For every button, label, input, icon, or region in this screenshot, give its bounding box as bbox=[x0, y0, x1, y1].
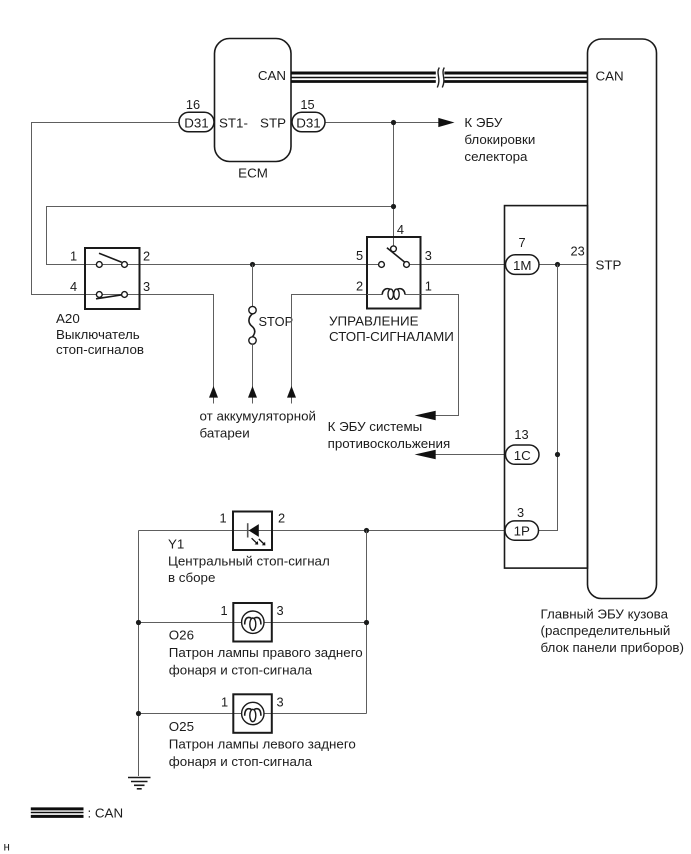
battery arrow middle bbox=[248, 386, 257, 398]
wire relay pin3 to 1M bbox=[409, 264, 505, 266]
wire switch pin1 to node above relay pin4 bbox=[47, 207, 394, 265]
wire switch pin3 to battery arrow left bbox=[140, 295, 214, 404]
node junction right rail O26 bbox=[364, 620, 369, 625]
wire right rail bbox=[366, 531, 368, 714]
wire vertical bus 1M-1C-1P bbox=[539, 265, 558, 531]
node junction right of 1C bbox=[555, 452, 560, 457]
svg-text:К ЭБУ системы: К ЭБУ системы bbox=[328, 419, 423, 434]
svg-text:2: 2 bbox=[356, 278, 363, 293]
svg-text:ECM: ECM bbox=[238, 166, 268, 181]
relay arm bbox=[387, 248, 406, 263]
node junction left rail O26 bbox=[136, 620, 141, 625]
rear lamp left O25 bbox=[221, 694, 284, 733]
svg-text:Главный ЭБУ кузова: Главный ЭБУ кузова bbox=[541, 607, 669, 622]
svg-text:блок панели приборов): блок панели приборов) bbox=[541, 640, 684, 655]
svg-text:Y1: Y1 bbox=[168, 536, 184, 551]
pin 16 connector D31 bbox=[179, 112, 214, 132]
arrow to shift-lock ECU bbox=[438, 118, 454, 127]
svg-text:STOP: STOP bbox=[259, 314, 294, 329]
contact pin1 bbox=[96, 262, 102, 268]
STOP fuse bbox=[249, 265, 293, 404]
pin 15 connector D31 bbox=[292, 112, 325, 132]
svg-text:3: 3 bbox=[517, 505, 524, 520]
pin 13 connector 1C bbox=[506, 445, 540, 464]
wire relay coil pin1 to skid-control arrow bbox=[421, 295, 459, 416]
svg-text:CAN: CAN bbox=[258, 68, 286, 83]
connector sub-block of main body ECU bbox=[505, 206, 588, 568]
wire ST1- pin16 to switch A20 pin 4 bbox=[32, 123, 180, 295]
svg-text:16: 16 bbox=[186, 97, 200, 112]
svg-text:в сборе: в сборе bbox=[168, 570, 215, 585]
svg-text:СТОП-СИГНАЛАМИ: СТОП-СИГНАЛАМИ bbox=[329, 329, 454, 344]
svg-text:фонаря и стоп-сигнала: фонаря и стоп-сигнала bbox=[169, 754, 313, 769]
LED cathode bar bbox=[247, 523, 249, 537]
svg-text:5: 5 bbox=[356, 248, 363, 263]
svg-text:O26: O26 bbox=[169, 628, 194, 643]
svg-text:стоп-сигналов: стоп-сигналов bbox=[56, 342, 144, 357]
wire O26 row bbox=[139, 622, 367, 624]
svg-text:батареи: батареи bbox=[200, 425, 250, 440]
battery arrow right bbox=[287, 386, 296, 398]
svg-text:O25: O25 bbox=[169, 719, 194, 734]
svg-text:3: 3 bbox=[276, 694, 283, 709]
svg-text:1: 1 bbox=[221, 694, 228, 709]
svg-text:7: 7 bbox=[518, 235, 525, 250]
wire switch pin2 to relay pin5 bbox=[140, 264, 379, 266]
svg-text:блокировки: блокировки bbox=[464, 132, 535, 147]
node junction STOP fuse tap bbox=[250, 262, 255, 267]
wire 1M to right block STP bbox=[539, 264, 588, 266]
svg-text:Патрон лампы правого заднего: Патрон лампы правого заднего bbox=[169, 645, 363, 660]
wire O25 row bbox=[139, 713, 367, 715]
stop light control relay bbox=[356, 222, 432, 309]
stop light switch A20 bbox=[70, 248, 150, 309]
svg-text:3: 3 bbox=[425, 248, 432, 263]
bulb O25 bbox=[242, 702, 264, 724]
svg-text:3: 3 bbox=[143, 279, 150, 294]
svg-text:4: 4 bbox=[70, 279, 77, 294]
CAN bus ECM to main body ECU bbox=[291, 73, 588, 82]
svg-text:A20: A20 bbox=[56, 311, 80, 326]
svg-text:К ЭБУ: К ЭБУ bbox=[464, 115, 503, 130]
wire vertical to relay pin 4 bbox=[393, 123, 395, 246]
center stop light Y1 bbox=[219, 511, 285, 550]
svg-text:D31: D31 bbox=[184, 115, 208, 130]
wire relay coil pin2 to battery arrow right bbox=[292, 295, 368, 404]
svg-text:Центральный стоп-сигнал: Центральный стоп-сигнал bbox=[168, 553, 330, 568]
main body ECU block bbox=[588, 39, 657, 599]
svg-text:CAN: CAN bbox=[596, 69, 624, 84]
svg-text:противоскольжения: противоскольжения bbox=[328, 436, 451, 451]
svg-text:13: 13 bbox=[514, 427, 528, 442]
svg-text:селектора: селектора bbox=[464, 149, 528, 164]
node junction right rail top bbox=[364, 528, 369, 533]
svg-text:фонаря и стоп-сигнала: фонаря и стоп-сигнала bbox=[169, 663, 313, 678]
arrow to skid control ECU (upper) bbox=[415, 411, 436, 420]
svg-text:3: 3 bbox=[276, 603, 283, 618]
ECM block bbox=[215, 39, 292, 162]
wire left rail down to ground bbox=[138, 531, 140, 777]
svg-text:: CAN: : CAN bbox=[88, 805, 124, 820]
svg-text:Выключатель: Выключатель bbox=[56, 327, 140, 342]
svg-text:D31: D31 bbox=[296, 115, 320, 130]
contact pin3 bbox=[122, 292, 128, 298]
contact pin2 bbox=[122, 262, 128, 268]
CAN legend bbox=[31, 809, 84, 817]
rear lamp right O26 bbox=[220, 603, 283, 642]
svg-text:1: 1 bbox=[425, 278, 432, 293]
svg-text:1P: 1P bbox=[514, 524, 530, 539]
svg-text:STP: STP bbox=[260, 115, 286, 130]
bulb O26 bbox=[242, 611, 264, 633]
svg-text:н: н bbox=[4, 841, 10, 853]
svg-text:1C: 1C bbox=[514, 448, 531, 463]
contact arm 1-2 bbox=[99, 253, 122, 262]
relay contact pin5 bbox=[379, 262, 385, 268]
svg-text:1M: 1M bbox=[513, 258, 532, 273]
node junction at pin1 wire bbox=[391, 204, 396, 209]
relay coil bbox=[367, 294, 382, 296]
ground bbox=[128, 778, 151, 789]
wire 1C to skid-control arrow bbox=[436, 454, 506, 456]
svg-text:1: 1 bbox=[219, 511, 226, 526]
relay contact pin4 bbox=[391, 246, 397, 252]
svg-text:2: 2 bbox=[143, 249, 150, 264]
arrow to skid control ECU (lower) bbox=[415, 450, 436, 459]
LED emission arrows bbox=[252, 538, 264, 544]
svg-text:4: 4 bbox=[397, 222, 404, 237]
pin 3 connector 1P bbox=[505, 521, 539, 540]
svg-text:Патрон лампы левого заднего: Патрон лампы левого заднего bbox=[169, 737, 356, 752]
node junction right of 1M bbox=[555, 262, 560, 267]
svg-text:STP: STP bbox=[596, 258, 622, 273]
wire 1P to lamps rail bbox=[139, 530, 506, 532]
svg-text:от аккумуляторной: от аккумуляторной bbox=[200, 409, 316, 424]
LED triangle bbox=[249, 524, 259, 537]
pin 7 connector 1M bbox=[506, 255, 540, 275]
svg-text:ST1-: ST1- bbox=[219, 115, 248, 130]
CAN bus break symbol bbox=[436, 67, 445, 89]
contact arm 4-3 bbox=[96, 295, 122, 299]
battery arrow left bbox=[209, 386, 218, 398]
wire STP pin15 to selector-lock arrow bbox=[325, 122, 439, 124]
relay contact pin3 bbox=[404, 262, 410, 268]
node junction left rail O25 bbox=[136, 711, 141, 716]
svg-text:УПРАВЛЕНИЕ: УПРАВЛЕНИЕ bbox=[329, 314, 419, 329]
svg-text:1: 1 bbox=[220, 603, 227, 618]
contact pin4 bbox=[96, 292, 102, 298]
svg-text:2: 2 bbox=[278, 511, 285, 526]
svg-text:23: 23 bbox=[570, 243, 584, 258]
node junction at STP wire bbox=[391, 120, 396, 125]
svg-text:15: 15 bbox=[300, 97, 314, 112]
svg-text:1: 1 bbox=[70, 249, 77, 264]
svg-text:(распределительный: (распределительный bbox=[541, 623, 671, 638]
